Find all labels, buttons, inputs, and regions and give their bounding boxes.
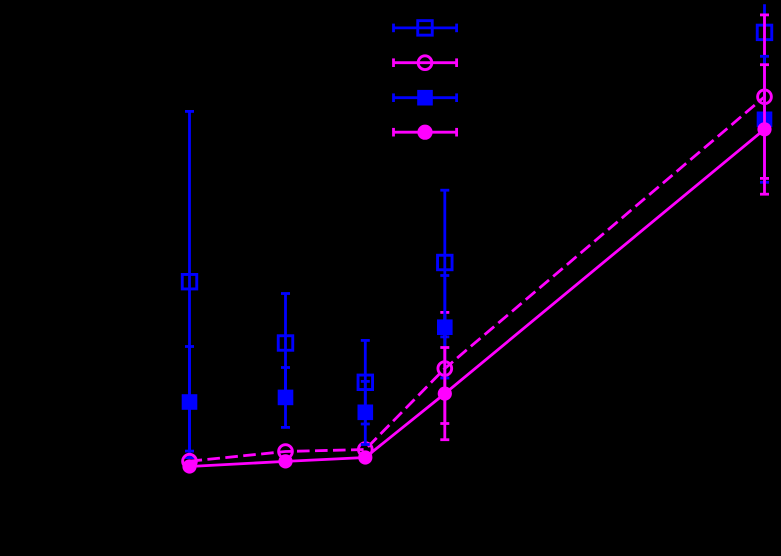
S3 filled-square marker column 5 — [757, 112, 773, 128]
S1 error bar column 4 — [443, 190, 446, 337]
S1 open-square marker column 4 — [438, 255, 453, 270]
legend entry: blue open-square — [394, 26, 457, 29]
S3 error bar column 4 — [443, 276, 446, 379]
S1 open-square marker column 2 — [278, 336, 293, 351]
series S2: magenta open circles, dashed connecting line — [183, 15, 772, 468]
S4 filled-circle marker column 1 — [182, 459, 196, 473]
legend — [394, 21, 457, 140]
S2 error bar column 5 — [763, 15, 766, 179]
legend entry: blue filled-square — [394, 96, 457, 99]
S4 filled-circle marker column 3 — [358, 450, 372, 464]
S2 open-circle marker column 5 — [758, 90, 772, 104]
series S3: blue filled squares with error bars (no connecting line) — [182, 56, 773, 451]
S1 open-square marker column 5 — [757, 25, 772, 40]
S2 open-circle marker column 4 — [438, 362, 452, 376]
S3 error bar column 1 — [188, 347, 191, 452]
S3 filled-square marker column 4 — [437, 319, 453, 335]
S4 error bar column 5 — [763, 65, 766, 195]
S3 error bar column 5 — [763, 56, 766, 182]
series S1: blue open squares with error bars (no connecting line) — [182, 4, 772, 457]
S2 open-circle marker column 1 — [183, 454, 197, 468]
S3 filled-square marker column 1 — [182, 394, 198, 410]
S1 error bar column 2 — [284, 294, 287, 393]
S1 open-square marker column 3 — [358, 375, 373, 390]
S4 filled-circle marker column 2 — [278, 454, 292, 468]
S4 error bar column 4 — [443, 348, 446, 440]
S1 error bar column 1 — [188, 111, 191, 457]
S3 error bar column 2 — [284, 368, 287, 428]
S3 filled-square marker column 2 — [278, 390, 294, 406]
S2 open-circle marker column 2 — [279, 445, 293, 459]
S2 dashed line — [190, 97, 765, 461]
legend entry: magenta open-circle — [394, 61, 457, 64]
S1 open-square marker column 1 — [182, 274, 197, 289]
S2 open-circle marker column 3 — [358, 443, 372, 457]
S3 filled-square marker column 3 — [358, 405, 374, 421]
S1 error bar column 3 — [364, 340, 367, 424]
S4 filled-circle marker column 5 — [757, 122, 771, 136]
S1 error bar column 5 — [763, 4, 766, 120]
series S4: magenta filled circles, solid connecting line — [182, 65, 771, 474]
S3 error bar column 3 — [364, 381, 367, 444]
S4 filled-circle marker column 4 — [438, 387, 452, 401]
legend entry: magenta filled-circle — [394, 131, 457, 134]
S2 error bar column 4 — [443, 312, 446, 423]
S4 solid line — [190, 129, 765, 466]
